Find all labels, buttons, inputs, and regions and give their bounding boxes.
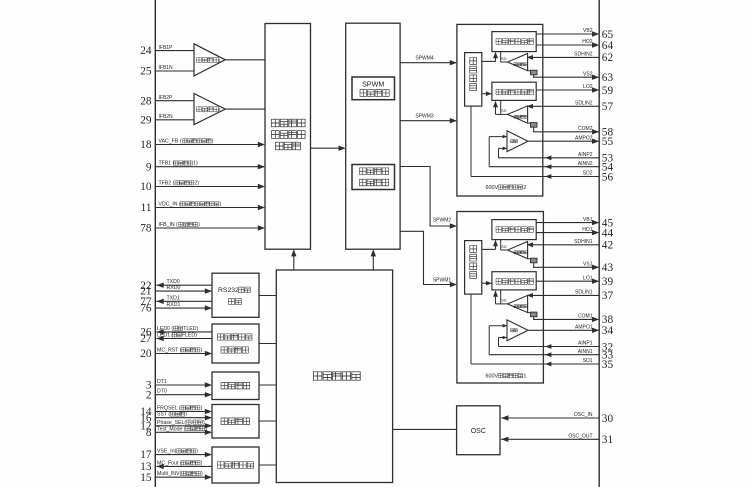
pin SD2	[471, 176, 599, 178]
wire low comparator to low driver 2	[496, 113, 508, 115]
svg-text:62: 62	[602, 52, 614, 64]
block configurable dead-zone generator	[352, 165, 395, 190]
wire chip right border	[598, 0, 600, 487]
svg-text:SD: SD	[501, 57, 507, 61]
svg-text:): )	[198, 222, 200, 228]
svg-text:1): 1)	[193, 161, 198, 167]
svg-text:SD: SD	[501, 109, 507, 113]
pin LO1	[536, 280, 598, 282]
wire controller to SPWM container	[372, 250, 374, 270]
block dead-zone config	[212, 372, 259, 400]
svg-text:AMPO1: AMPO1	[575, 325, 593, 331]
pin LO2	[536, 89, 598, 91]
svg-text:TXD1: TXD1	[167, 295, 180, 301]
wire reset module to controller	[259, 343, 276, 345]
block 600V high-voltage driver 2	[457, 24, 543, 196]
pin AINN1	[489, 354, 599, 356]
pin VS2	[533, 75, 535, 77]
wire RS232 to controller	[259, 295, 276, 297]
wire low comparator to low driver 1	[496, 303, 508, 305]
svg-text:11: 11	[141, 202, 152, 214]
svg-text:IFB1N: IFB1N	[159, 65, 174, 71]
block output reset and indicator module	[212, 324, 259, 363]
svg-text:34: 34	[602, 325, 614, 337]
svg-text:TFB1 (: TFB1 (	[159, 161, 175, 167]
svg-text:AINN2: AINN2	[578, 161, 593, 167]
wire high comparator output 2	[500, 52, 502, 62]
wire chip left border	[154, 0, 156, 487]
comparator SD high 1	[508, 242, 528, 259]
svg-text:IFB2N: IFB2N	[159, 114, 174, 120]
svg-text:SDLIN2: SDLIN2	[575, 101, 593, 107]
svg-text:43: 43	[602, 262, 614, 274]
svg-text:COM1: COM1	[578, 314, 593, 320]
block feedback and protection module	[265, 24, 311, 250]
block low-side drive output 1	[492, 272, 536, 290]
wire logic to high-side driver 1	[482, 248, 496, 250]
svg-text:): )	[201, 460, 203, 466]
block 600V high-voltage driver 1	[457, 212, 544, 384]
svg-text:39: 39	[602, 276, 614, 288]
svg-text:SPWM2: SPWM2	[433, 218, 452, 224]
svg-text:SD: SD	[501, 299, 507, 303]
pin COM1	[533, 317, 535, 320]
pin 30 OSC_IN	[501, 417, 599, 419]
svg-text:SDHIN1: SDHIN1	[574, 239, 593, 245]
svg-text:Test_Mode (: Test_Mode (	[157, 426, 186, 432]
svg-text:9: 9	[146, 161, 152, 173]
svg-text:FRQSEL (: FRQSEL (	[157, 406, 181, 412]
svg-text:VB1: VB1	[583, 217, 593, 223]
svg-text:TLED): TLED)	[183, 326, 198, 332]
wire logic to high-side driver 2	[482, 60, 496, 62]
svg-text:OSC_OUT: OSC_OUT	[568, 434, 592, 440]
pin HO2	[536, 44, 598, 46]
svg-text:SDHIN2: SDHIN2	[574, 52, 593, 58]
block logic processing 2	[465, 53, 482, 107]
block logic processing 1	[465, 241, 482, 295]
wire controller to OSC	[393, 428, 457, 430]
wire amp2 output	[225, 108, 265, 110]
svg-text:FLED): FLED)	[182, 333, 197, 339]
svg-text:MC_RST (: MC_RST (	[157, 348, 182, 354]
svg-text:76: 76	[140, 303, 152, 315]
svg-text:HO1: HO1	[582, 227, 593, 233]
pin VB2	[536, 33, 598, 35]
block RS232 communication module	[212, 273, 259, 317]
svg-text:AMPO2: AMPO2	[575, 135, 593, 141]
pin HO1	[536, 232, 598, 234]
svg-text:31: 31	[602, 434, 613, 446]
wire SPWM2	[400, 167, 456, 227]
svg-text:27: 27	[140, 333, 152, 345]
svg-text:SPWM1: SPWM1	[433, 278, 452, 284]
svg-text:18: 18	[140, 139, 152, 151]
svg-text:DT0: DT0	[157, 389, 167, 395]
block digital controller	[276, 270, 392, 483]
wire deadzone cfg to controller	[259, 384, 276, 386]
svg-text:VS1: VS1	[583, 262, 593, 268]
svg-text:): )	[205, 426, 207, 432]
svg-text:DT1: DT1	[157, 379, 167, 385]
svg-text:VB2: VB2	[583, 28, 593, 34]
wire SPWM3	[400, 120, 456, 122]
svg-text:2): 2)	[194, 181, 199, 187]
svg-text:42: 42	[602, 240, 614, 252]
svg-text:LED1 (: LED1 (	[157, 333, 173, 339]
comparator SD low 1	[508, 295, 528, 312]
svg-text:): )	[185, 412, 187, 418]
pin COM2	[533, 127, 535, 132]
svg-text:): )	[219, 202, 221, 208]
svg-text:28: 28	[140, 95, 152, 107]
svg-text:SD2: SD2	[583, 171, 593, 177]
level shift block high 2	[528, 70, 531, 72]
svg-text:AINN1: AINN1	[578, 349, 593, 355]
svg-text:IFB2P: IFB2P	[159, 95, 174, 101]
svg-text:): )	[200, 406, 202, 412]
wire logic to low-side driver 2	[482, 93, 491, 95]
svg-text:2: 2	[523, 185, 526, 191]
block SPWM control module	[352, 77, 395, 100]
pin AINP2	[499, 157, 600, 159]
svg-text:): )	[200, 348, 202, 354]
pin SDLIN1	[528, 294, 600, 296]
wire logic to low-side driver 1	[482, 282, 491, 284]
svg-text:55: 55	[602, 136, 614, 148]
svg-text:VAC_FB (: VAC_FB (	[159, 139, 182, 145]
block OSC	[457, 406, 500, 455]
svg-text:AINP1: AINP1	[578, 341, 593, 347]
svg-text:10: 10	[140, 181, 152, 193]
svg-text:): )	[201, 471, 203, 477]
wire controller to feedback module	[293, 250, 295, 270]
block low-side drive output 2	[492, 82, 536, 100]
block SPWM outer container	[346, 23, 400, 249]
wire SPWM1	[400, 231, 456, 284]
pin SDHIN1	[528, 244, 600, 246]
svg-text:VDC_IN (: VDC_IN (	[159, 202, 181, 208]
svg-text:RXD0: RXD0	[167, 285, 181, 291]
svg-text:SPWM4: SPWM4	[415, 56, 434, 62]
wire SD2 to logic	[470, 106, 472, 176]
svg-text:8: 8	[146, 427, 152, 439]
pin AMPO2	[528, 140, 598, 142]
svg-text:VSE_In(: VSE_In(	[157, 449, 177, 455]
block high-side drive output 1	[492, 220, 536, 240]
svg-text:64: 64	[602, 40, 614, 52]
svg-text:SD1: SD1	[583, 358, 593, 364]
wire SD1 to logic	[470, 294, 472, 364]
comparator SD high 2	[508, 54, 528, 71]
svg-text:IFB1P: IFB1P	[159, 45, 174, 51]
wire feedback to SPWM module	[311, 147, 345, 149]
block three-phase module	[212, 447, 259, 483]
svg-text:17: 17	[140, 449, 152, 461]
svg-text:56: 56	[602, 171, 614, 183]
pin AINN2	[489, 166, 599, 168]
wire function cfg to controller	[259, 420, 276, 422]
wire amp1 output	[225, 59, 265, 61]
svg-text:15: 15	[140, 472, 152, 484]
pin VS1	[533, 263, 535, 268]
svg-text:Multi_INV(: Multi_INV(	[157, 471, 181, 477]
svg-text:35: 35	[602, 359, 614, 371]
svg-text:SPWM3: SPWM3	[415, 114, 434, 120]
svg-text:OSC: OSC	[471, 428, 486, 435]
svg-text:78: 78	[140, 223, 152, 235]
svg-text:AINP2: AINP2	[578, 152, 593, 158]
svg-text:LED0 (: LED0 (	[157, 326, 173, 332]
wire SPWM4	[400, 62, 456, 64]
svg-text:1: 1	[218, 58, 221, 63]
svg-text:SDLIN1: SDLIN1	[575, 290, 593, 296]
svg-text:44: 44	[602, 227, 614, 239]
svg-text:20: 20	[140, 348, 152, 360]
comparator SD low 2	[508, 106, 528, 123]
op-amp current amplifier 1	[507, 320, 528, 341]
pin SDLIN2	[528, 105, 600, 107]
svg-text:SST (: SST (	[157, 412, 170, 418]
svg-text:VS2: VS2	[583, 71, 593, 77]
svg-text:SPWM: SPWM	[362, 79, 384, 88]
pin AINP1	[499, 346, 600, 348]
block high-side drive output 2	[492, 32, 536, 52]
svg-text:Phase_SEL(: Phase_SEL(	[157, 420, 186, 426]
svg-text:37: 37	[602, 290, 614, 302]
svg-text:HO2: HO2	[582, 39, 593, 45]
wire high comparator output 1	[500, 240, 502, 250]
block function config	[212, 405, 259, 439]
op-amp current amplifier 2	[507, 131, 528, 152]
svg-text:600V: 600V	[486, 373, 499, 379]
svg-text:SD: SD	[501, 245, 507, 249]
svg-text:RS232: RS232	[218, 287, 239, 294]
svg-text:2: 2	[146, 389, 152, 401]
svg-text:25: 25	[140, 66, 152, 78]
svg-text:): )	[196, 449, 198, 455]
svg-text:TFB2 (: TFB2 (	[159, 181, 175, 187]
svg-text:63: 63	[602, 72, 614, 84]
level shift block low 2	[528, 122, 531, 124]
svg-text:29: 29	[140, 114, 152, 126]
pin 31 OSC_OUT	[501, 438, 599, 440]
op-amp current channel 2	[194, 94, 225, 125]
wire threephase to controller	[259, 464, 276, 466]
pin VB1	[536, 222, 598, 224]
svg-text:2: 2	[218, 107, 221, 112]
svg-text:57: 57	[602, 101, 614, 113]
pin SD1	[471, 363, 599, 365]
svg-text:MC_Fout (: MC_Fout (	[157, 460, 182, 466]
svg-text:IFB_IN (: IFB_IN (	[159, 222, 179, 228]
svg-text:LO1: LO1	[583, 275, 593, 281]
svg-text:RXD1: RXD1	[167, 302, 181, 308]
svg-text:1: 1	[523, 373, 526, 379]
svg-text:600V: 600V	[486, 185, 499, 191]
level shift block high 1	[528, 258, 531, 260]
svg-text:24: 24	[140, 45, 152, 57]
svg-text:59: 59	[602, 85, 614, 97]
svg-text:): )	[212, 139, 214, 145]
pin AMPO1	[528, 329, 598, 331]
svg-text:): )	[203, 420, 205, 426]
svg-text:OSC_IN: OSC_IN	[574, 412, 593, 418]
svg-text:30: 30	[602, 413, 614, 425]
level shift block low 1	[528, 312, 531, 314]
svg-text:LO2: LO2	[583, 84, 593, 90]
svg-text:COM2: COM2	[578, 126, 593, 132]
op-amp current channel 1	[194, 44, 225, 76]
pin SDHIN2	[528, 56, 600, 58]
